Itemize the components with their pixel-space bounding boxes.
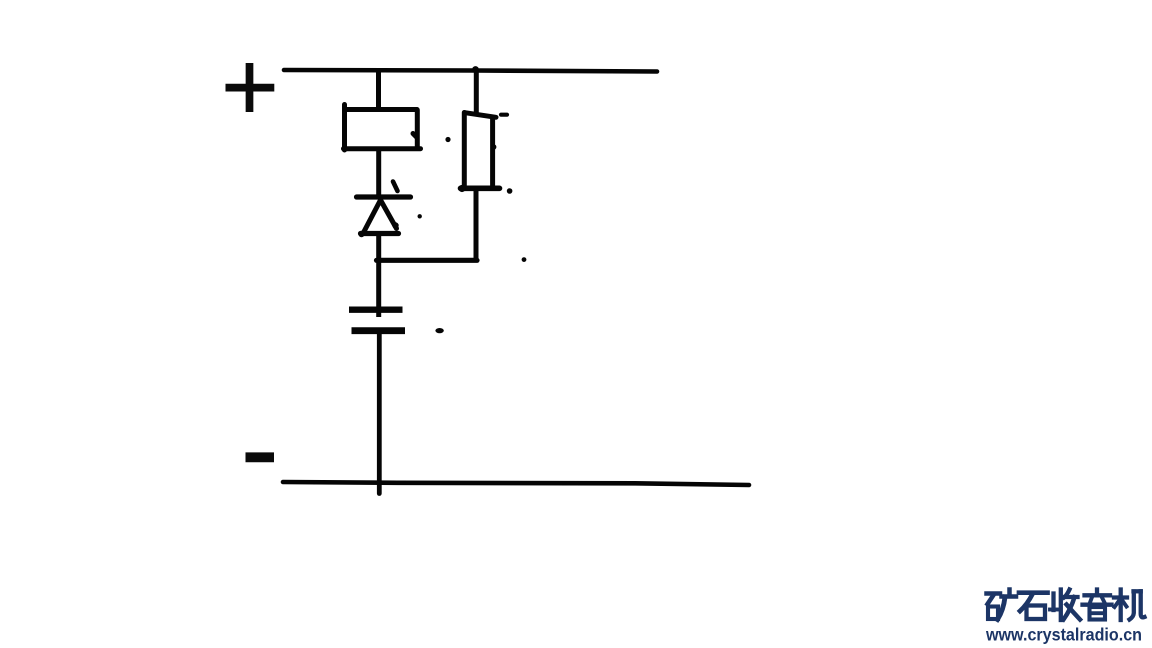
minus terminal [246, 452, 275, 462]
watermark logo: character 石 [1019, 593, 1048, 619]
junction blob at top rail / R2 branch [472, 66, 479, 73]
plus terminal [226, 63, 275, 112]
watermark logo: character 音 [1083, 590, 1112, 620]
watermark logo: character 矿 [987, 590, 1017, 620]
stray dash top-right of R2 [501, 113, 507, 117]
wire stub from top rail to R1 [376, 71, 381, 108]
wire R2 to node A [474, 189, 479, 261]
stray mark near R1 right [445, 137, 450, 142]
wire R1 to D1 [376, 149, 381, 196]
capacitor C1 bottom plate [352, 327, 406, 334]
capacitor C1 top plate [349, 307, 403, 313]
wire top rail [284, 70, 657, 72]
wire node A to C1 [376, 260, 381, 317]
zener diode D1 [357, 182, 411, 238]
stray mark right of D1 [418, 214, 422, 218]
stray mark right of node A wire [522, 257, 527, 262]
watermark logo: character 机 [1114, 590, 1145, 621]
wire C1 to bottom rail [377, 331, 382, 494]
wire stub from top rail to R2 [474, 70, 479, 113]
resistor R2 [458, 113, 499, 193]
watermark logo: character 收 [1050, 590, 1080, 621]
node A horizontal wire [377, 258, 478, 263]
resistor R1 [344, 105, 421, 151]
stray mark right of C1 [435, 328, 443, 333]
wire D1 to node A [376, 234, 381, 261]
wire bottom rail [283, 482, 749, 485]
svg-text:www.crystalradio.cn: www.crystalradio.cn [985, 625, 1142, 645]
stray mark right of R2 bottom [507, 188, 513, 194]
